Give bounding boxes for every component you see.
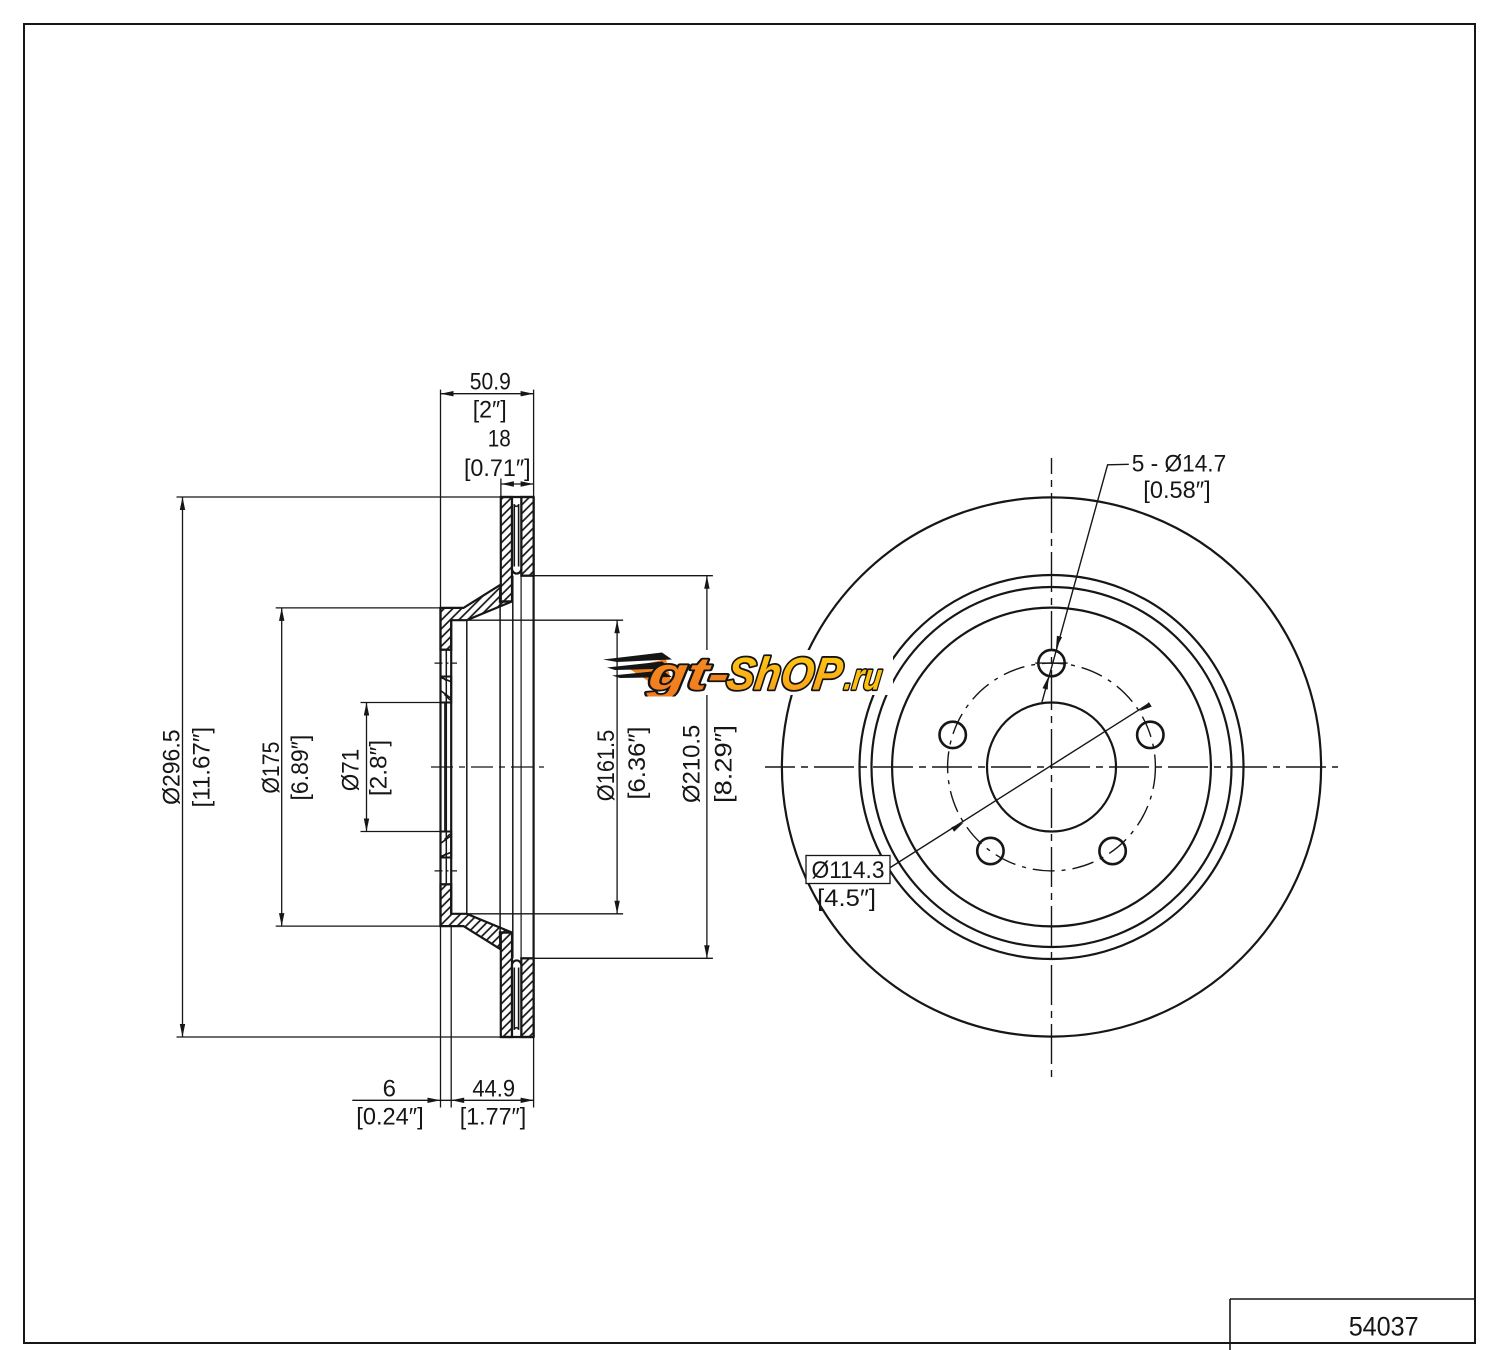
svg-text:6: 6	[383, 1075, 396, 1102]
bolt hole bottom edges in flange	[441, 857, 452, 859]
flange strip between bore and bolt hole (bottom) with chamfer	[441, 832, 452, 858]
flange outer face / 50.9 extension line	[440, 390, 442, 1108]
hatched cone + lower flange	[441, 884, 512, 949]
ring top edge	[501, 496, 534, 498]
boxed label Ø114.3	[806, 856, 890, 884]
ext line for 18	[500, 479, 502, 498]
svg-text:gt-: gt-	[644, 648, 733, 700]
section centerline	[431, 766, 544, 768]
svg-text:Ø71: Ø71	[338, 749, 365, 792]
svg-text:[6.89″]: [6.89″]	[287, 735, 314, 801]
svg-text:50.9: 50.9	[470, 368, 511, 395]
arrowheads (front view)	[951, 636, 1151, 832]
svg-text:[11.67″]: [11.67″]	[189, 727, 216, 808]
hatched outboard plate top	[521, 497, 533, 576]
flange strip between bolt hole and bore (top) with chamfer	[441, 677, 452, 703]
dim 6 / 44.9 line	[352, 1099, 533, 1101]
dim Ø161.5 line	[616, 620, 618, 914]
top hole horizontal tick	[1035, 662, 1067, 664]
svg-text:Ø175: Ø175	[258, 742, 285, 794]
ring inner edge top (outboard)	[521, 575, 533, 577]
svg-text:ShOP: ShOP	[724, 648, 846, 700]
ext lines Ø161.5	[467, 619, 623, 621]
ext lines Ø175	[276, 607, 441, 609]
ext lines Ø210.5	[534, 575, 713, 577]
outboard face / extension line	[533, 390, 535, 1108]
dim Ø71 line	[366, 703, 368, 832]
svg-text:[0.58″]: [0.58″]	[1143, 477, 1210, 504]
svg-text:5 - Ø14.7: 5 - Ø14.7	[1132, 450, 1226, 477]
hub bore Ø71	[987, 703, 1116, 832]
bolt circle Ø114.3 dashed	[948, 663, 1156, 871]
ring inner edge bottom (outboard)	[521, 957, 533, 959]
hatched outboard plate bottom	[521, 958, 533, 1037]
bore wall lines	[444, 703, 446, 832]
svg-text:Ø114.3: Ø114.3	[812, 857, 885, 884]
flange inner face	[450, 620, 452, 914]
bolt hole upper-right	[1137, 722, 1163, 748]
circle Ø175 hat	[892, 608, 1211, 927]
ring bottom edge	[501, 1036, 534, 1038]
logo speed lines	[628, 659, 673, 690]
ext lines Ø71	[361, 702, 447, 704]
logo white backdrop	[649, 650, 893, 695]
vent slot top	[512, 496, 521, 574]
bolt hole top edges in flange	[441, 649, 452, 651]
plate outer face mid line	[499, 601, 501, 932]
vent wall projection lines	[512, 576, 514, 959]
circle friction band step	[872, 587, 1232, 947]
bolt hole centerline bottom	[435, 870, 458, 872]
dim Ø210.5 line	[706, 576, 708, 959]
dim Ø175 line	[281, 608, 283, 926]
svg-text:Ø296.5: Ø296.5	[159, 730, 186, 805]
svg-text:[0.71″]: [0.71″]	[464, 455, 531, 482]
svg-text:Ø161.5: Ø161.5	[593, 730, 620, 801]
svg-text:54037: 54037	[1349, 1312, 1419, 1342]
outer circle Ø296.5	[782, 497, 1321, 1036]
svg-text:.ru: .ru	[842, 656, 885, 698]
dim 18 line	[501, 483, 534, 485]
hatched inboard plate top	[501, 497, 512, 602]
leader line 5-Ø14.7	[1042, 464, 1129, 702]
hat floor vertical line	[466, 620, 468, 914]
svg-text:18: 18	[488, 426, 511, 453]
svg-text:44.9: 44.9	[472, 1075, 515, 1102]
logo text gt-ShOP.ru	[644, 648, 886, 700]
svg-text:Ø210.5: Ø210.5	[678, 725, 705, 803]
horizontal centerline	[765, 766, 1338, 768]
svg-text:[8.29″]: [8.29″]	[711, 725, 738, 803]
bore top edge	[441, 702, 452, 704]
vertical centerline	[1051, 458, 1053, 1078]
svg-text:[2.8″]: [2.8″]	[366, 740, 393, 796]
dimension texts (section)	[159, 368, 738, 1130]
svg-text:[2″]: [2″]	[473, 396, 507, 423]
title block box	[1230, 1298, 1475, 1300]
bore bottom edge	[441, 831, 452, 833]
bolt hole upper-left	[940, 722, 966, 748]
svg-text:[4.5″]: [4.5″]	[817, 885, 876, 912]
svg-text:[6.36″]: [6.36″]	[624, 726, 651, 799]
dim 50.9 line	[441, 393, 534, 395]
svg-text:[0.24″]: [0.24″]	[356, 1104, 423, 1131]
bolt hole centerline top	[435, 662, 458, 664]
svg-text:[1.77″]: [1.77″]	[460, 1104, 527, 1131]
ext lines Ø296.5	[177, 496, 501, 498]
bolt hole lower-left	[977, 838, 1003, 864]
diagonal dim line Ø114.3	[890, 705, 1148, 869]
dim Ø296.5 line	[182, 497, 184, 1037]
label 5 - Ø14.7	[1132, 450, 1226, 503]
circle Ø210.5	[860, 575, 1244, 959]
arrowheads of section dims	[180, 391, 710, 1103]
hatched inboard plate bottom	[501, 933, 512, 1038]
bolt hole top	[1038, 650, 1064, 676]
bolt hole lower-right	[1099, 838, 1125, 864]
vent slot bottom	[512, 960, 521, 1038]
hatched cone + upper flange	[441, 585, 512, 650]
